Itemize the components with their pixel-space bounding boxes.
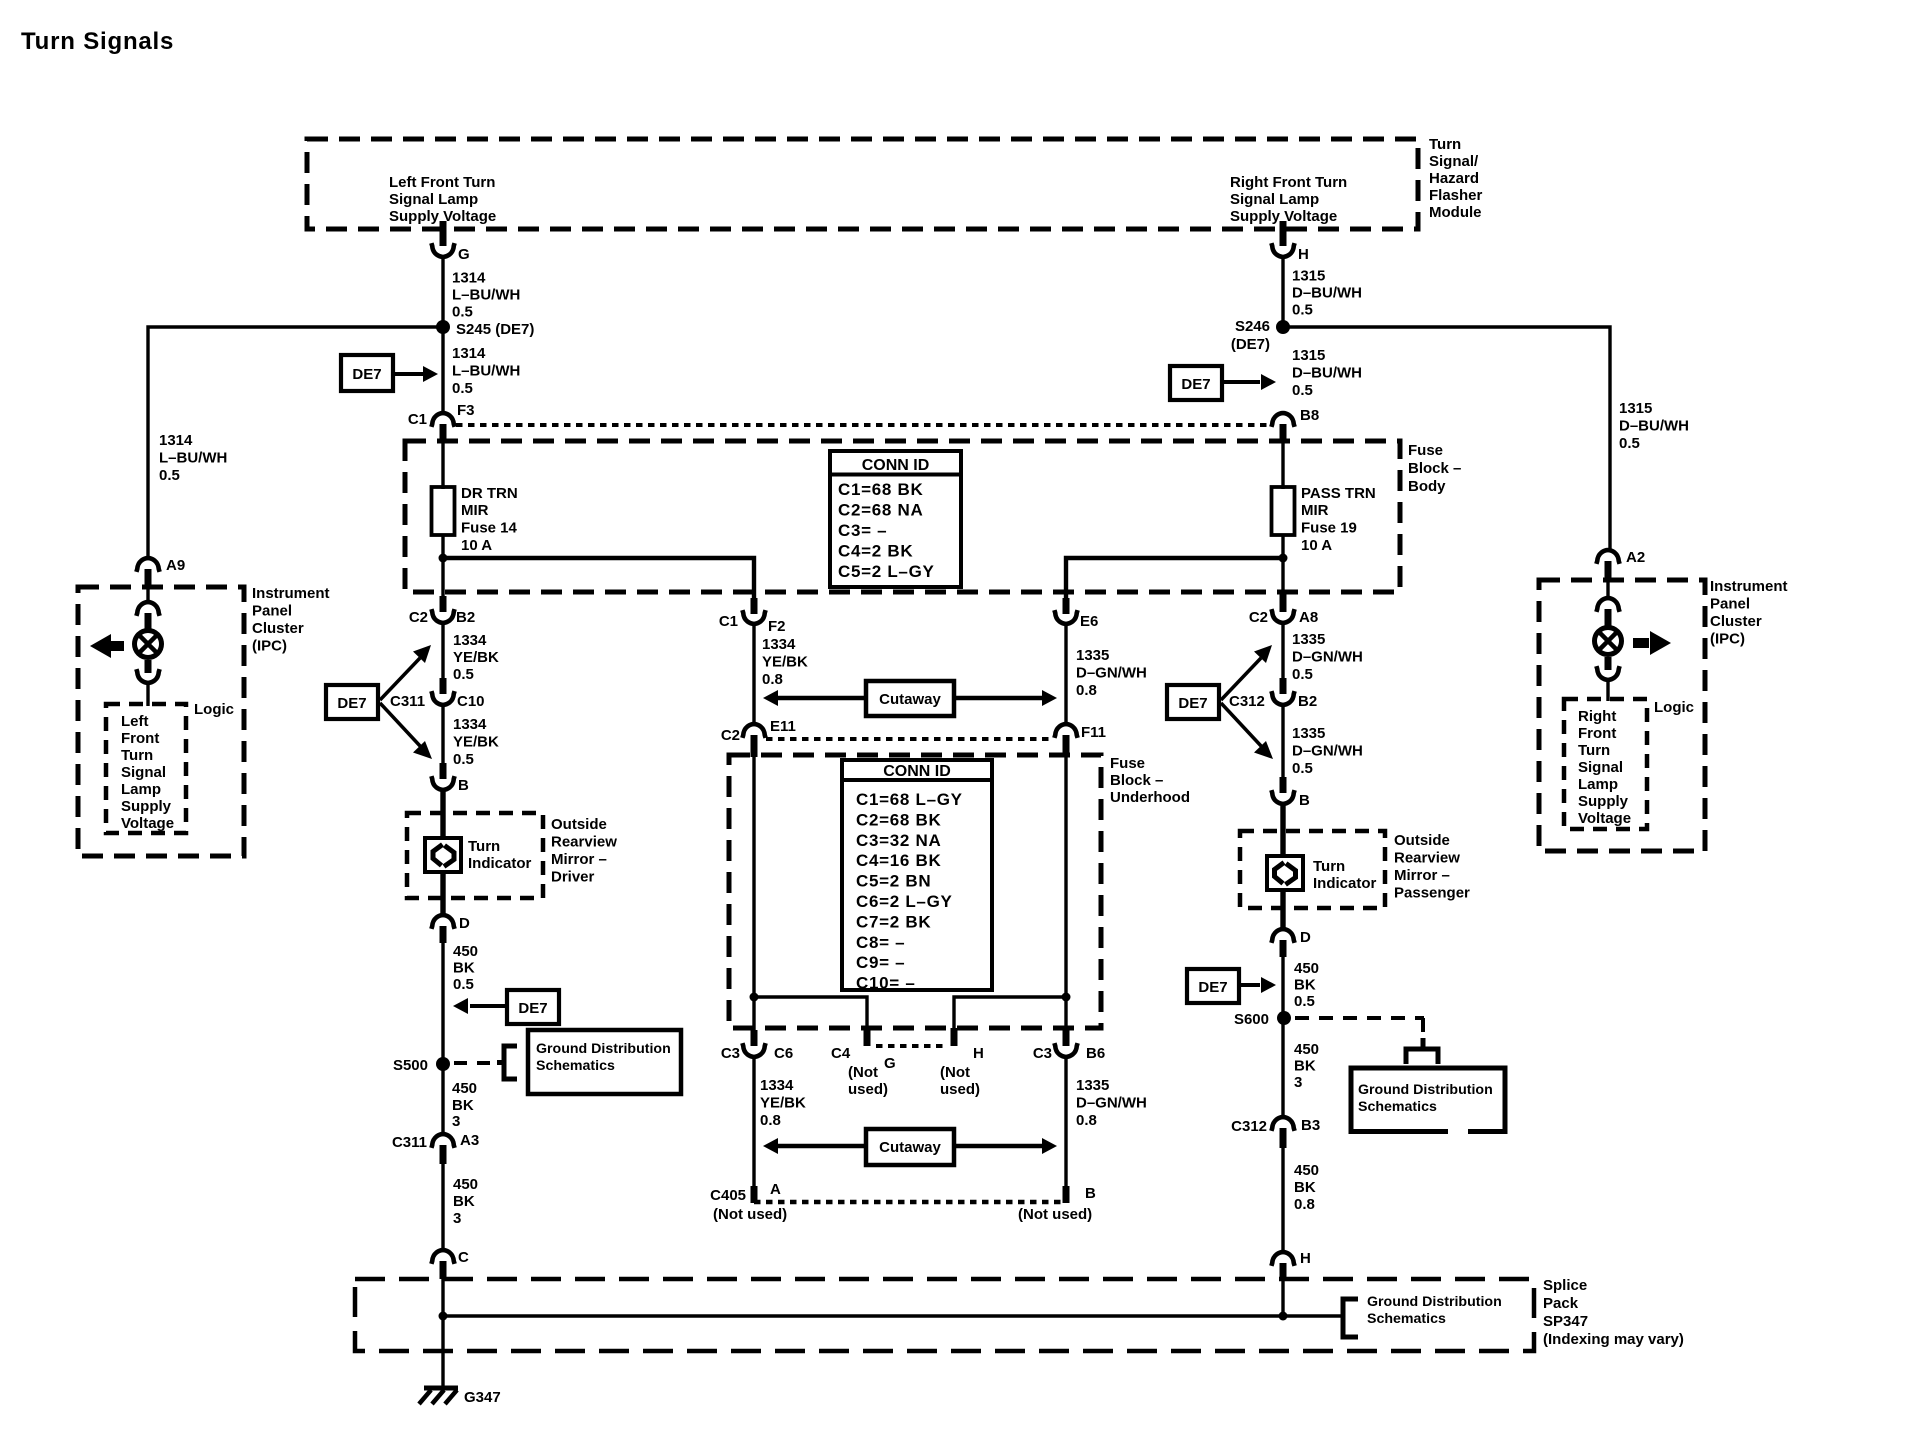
svg-text:1334: 1334 [762,636,796,653]
svg-text:10 A: 10 A [461,537,492,554]
turn indicator lamp (passenger) [1267,856,1303,890]
svg-text:0.8: 0.8 [1076,1112,1097,1129]
label: Fuse Block - Body [1408,442,1461,495]
connector C3/C6 [742,1043,765,1057]
wire into fuse F19 [1281,439,1284,489]
wire 450 S600 to C312/B3 [1281,1018,1284,1119]
svg-text:Ground Distribution: Ground Distribution [1367,1294,1502,1310]
connector C3/B6 [1054,1043,1077,1057]
bracket to ground distribution note [497,1046,517,1079]
svg-text:(Not used): (Not used) [1018,1206,1092,1223]
splice S500 [436,1057,450,1071]
svg-text:C311: C311 [392,1134,427,1151]
svg-text:H: H [1298,246,1309,263]
wire B to turn indicator [440,790,445,840]
wire 1334 C2/B2 to C311/C10 [441,623,444,680]
svg-text:DE7: DE7 [1178,695,1207,712]
svg-text:C1=68 BK: C1=68 BK [838,480,923,499]
svg-text:S600: S600 [1234,1011,1269,1028]
cutaway marker (upper) [763,681,1057,716]
dotted connector line E11-F11 [766,737,1054,741]
CONN ID table (underhood) [842,760,992,993]
note box: Ground Distribution Schematics (S500) [528,1030,681,1094]
svg-text:Instrument: Instrument [1710,578,1788,595]
svg-text:1335: 1335 [1292,725,1325,742]
svg-text:Driver: Driver [551,869,595,886]
wire label 450 BK 3 (right) [1294,1041,1319,1091]
svg-text:Turn: Turn [468,838,500,855]
svg-text:C1: C1 [719,613,738,630]
svg-text:Indicator: Indicator [1313,875,1377,892]
svg-text:Front: Front [1578,725,1616,742]
svg-text:(Not: (Not [848,1064,878,1081]
logic box (right IPC) [1564,699,1647,829]
svg-text:Cluster: Cluster [1710,613,1762,630]
arrow DE7 up to wire above C312 [1221,645,1272,700]
svg-text:C6: C6 [774,1045,793,1062]
svg-text:Splice: Splice [1543,1277,1587,1294]
svg-text:B: B [458,777,469,794]
svg-text:F11: F11 [1081,724,1106,741]
svg-text:Panel: Panel [252,603,292,620]
svg-text:Mirror –: Mirror – [1394,867,1450,884]
connector (IPC internal top, right) [1596,598,1619,612]
connector G [431,243,454,257]
svg-text:Pack: Pack [1543,1295,1579,1312]
turn indicator lamp (driver) [425,838,461,872]
svg-text:F3: F3 [457,402,475,419]
svg-text:450: 450 [1294,1162,1319,1179]
svg-text:Passenger: Passenger [1394,885,1470,902]
svg-text:B: B [1085,1185,1096,1202]
svg-text:1334: 1334 [453,716,487,733]
svg-text:YE/BK: YE/BK [453,649,499,666]
svg-text:Cutaway: Cutaway [879,691,941,708]
svg-text:A9: A9 [166,557,185,574]
svg-text:C10= –: C10= – [856,974,916,993]
svg-text:1334: 1334 [760,1077,794,1094]
wire branch to C4 stub [754,997,867,1032]
svg-text:PASS TRN: PASS TRN [1301,485,1376,502]
wire F11 down through underhood box [1064,753,1067,1032]
connector D (driver) [431,915,454,929]
svg-text:450: 450 [1294,960,1319,977]
svg-text:3: 3 [1294,1074,1302,1091]
svg-text:Panel: Panel [1710,596,1750,613]
svg-text:C312: C312 [1231,1118,1267,1135]
svg-text:450: 450 [453,943,478,960]
connector C (splice pack) [431,1250,454,1264]
svg-text:0.5: 0.5 [453,976,474,993]
pin stub C [440,1261,447,1279]
svg-text:D–GN/WH: D–GN/WH [1076,1095,1147,1112]
label: Right Front Turn Signal Lamp Supply Voltage [1578,708,1631,827]
arrow DE7 down to wire below C311 [380,703,432,759]
svg-text:Logic: Logic [1654,699,1694,716]
svg-text:0.5: 0.5 [1292,760,1313,777]
connector B (driver mirror) [431,776,454,790]
wire below fuse F14 [441,535,444,598]
svg-text:Lamp: Lamp [121,781,161,798]
wire label 1334 YE/BK 0.5 (below C311) [453,716,499,768]
flasher module U1 box [307,139,1418,229]
indicator lamp (left IPC) [135,631,162,658]
svg-text:BK: BK [452,1097,474,1114]
arrow DE7 down to wire below C312 [1221,703,1273,759]
fuse label DR TRN MIR Fuse 14 10 A [461,485,518,554]
wire label 450 BK 0.8 [1294,1162,1319,1213]
wire 450 D to S500 [441,941,444,1064]
arrow DE7 to wire (right lower) [1239,977,1276,993]
splice pack SP347 box [355,1279,1534,1351]
wire branch F14 to C1/F2 [443,558,754,602]
connector H [1271,243,1294,257]
svg-text:1315: 1315 [1292,268,1325,285]
instrument panel cluster box (right) [1539,580,1705,851]
svg-text:Hazard: Hazard [1429,170,1479,187]
pin stub C2/B2 (left) [440,596,447,612]
svg-text:0.5: 0.5 [1292,382,1313,399]
svg-text:C4=2 BK: C4=2 BK [838,542,913,561]
connector A2 [1596,550,1619,564]
svg-text:DE7: DE7 [1181,376,1210,393]
svg-text:D–BU/WH: D–BU/WH [1292,365,1362,382]
svg-text:Indicator: Indicator [468,855,532,872]
svg-text:1315: 1315 [1292,347,1325,364]
svg-text:Schematics: Schematics [1358,1099,1437,1115]
wire 1334 C10 to B [441,705,444,764]
svg-text:Turn: Turn [1578,742,1610,759]
svg-text:A: A [770,1181,781,1198]
svg-text:C3: C3 [1033,1045,1052,1062]
wire C6 to C405-A [752,1057,755,1190]
svg-text:0.5: 0.5 [1292,302,1313,319]
wire lamp to logic (left IPC) [146,683,149,706]
connector C312/B2 [1271,691,1294,705]
svg-text:Outside: Outside [551,816,607,833]
right turn arrow [1633,631,1671,655]
label: Right Front Turn Signal Lamp Supply Voltage [1230,174,1347,225]
wire label 1315 D-BU/WH 0.5 (right branch) [1619,400,1689,452]
svg-text:Voltage: Voltage [121,815,174,832]
svg-text:H: H [1300,1250,1311,1267]
wire label 1314 L-BU/WH 0.5 (left branch) [159,432,227,484]
junction H wire at bus [1279,1312,1288,1321]
wire branch to H stub [954,997,1066,1032]
CONN ID table (fuse block body) [830,451,961,587]
svg-text:1335: 1335 [1292,631,1325,648]
svg-text:1314: 1314 [452,270,486,287]
svg-text:Fuse: Fuse [1110,755,1145,772]
svg-text:D–BU/WH: D–BU/WH [1292,285,1362,302]
pin stub D [440,926,447,943]
pin stub A (C405) [751,1186,758,1203]
fuse F14 [432,487,455,535]
svg-text:C5=2 BN: C5=2 BN [856,872,931,891]
svg-text:CONN ID: CONN ID [883,763,951,780]
svg-text:B2: B2 [1298,693,1317,710]
svg-text:Voltage: Voltage [1578,810,1631,827]
label: Left Front Turn Signal Lamp Supply Voltage [121,713,174,832]
svg-text:D–GN/WH: D–GN/WH [1292,743,1363,760]
svg-text:S245 (DE7): S245 (DE7) [456,321,534,338]
connector C312/B3 [1271,1117,1294,1131]
pin stub C3/B6 [1063,1030,1070,1046]
svg-text:G347: G347 [464,1389,501,1406]
svg-text:(Indexing may vary): (Indexing may vary) [1543,1331,1684,1348]
connector C2/B2 (left) [431,609,454,623]
wire label 450 BK 3 (below C311) [453,1176,478,1227]
pin stub C312/B2 [1280,678,1287,694]
wire label 1334 YE/BK 0.5 [453,632,499,683]
pin stub E11 [751,735,758,757]
svg-text:Schematics: Schematics [536,1058,615,1074]
wire F2 to E11 [752,624,755,726]
pin stub G [440,221,447,246]
wire label 1314 L-BU/WH 0.5 (below S245) [452,345,520,397]
connector C2/A8 (right) [1271,609,1294,623]
connector F11 [1054,724,1077,738]
svg-text:D: D [1300,929,1311,946]
pin stub C2/A8 (right) [1280,594,1287,612]
pin stub F3 [440,424,447,441]
svg-text:C2: C2 [409,609,428,626]
pin stub H (splice pack) [1280,1263,1287,1281]
label: Outside Rearview Mirror - Driver [551,816,617,886]
svg-text:C2=68 BK: C2=68 BK [856,810,941,829]
wire A2 into IPC [1606,578,1609,596]
svg-text:0.5: 0.5 [1294,993,1315,1010]
svg-text:0.5: 0.5 [452,304,473,321]
pin stub C1/F2 [751,598,758,614]
pin stub H [1280,221,1287,246]
svg-text:Right Front Turn: Right Front Turn [1230,174,1347,191]
wire label 1335 D-GN/WH 0.5 (below C312) [1292,725,1363,777]
label: Instrument Panel Cluster (IPC) left [252,585,330,655]
pin stub C3/C6 [751,1030,758,1046]
indicator lamp (right IPC) [1595,628,1622,655]
label: Instrument Panel Cluster (IPC) right [1710,578,1788,648]
svg-text:1335: 1335 [1076,647,1109,664]
svg-text:DE7: DE7 [1198,979,1227,996]
svg-text:Turn Signals: Turn Signals [21,28,174,55]
wire 1314 from G to S245 [441,257,444,327]
wire E6 to F11 [1064,624,1067,726]
pin stub B (passenger mirror) [1280,777,1287,793]
svg-text:A3: A3 [460,1132,479,1149]
svg-text:Cutaway: Cutaway [879,1139,941,1156]
svg-text:Supply: Supply [1578,793,1629,810]
svg-text:450: 450 [452,1080,477,1097]
label: Left Front Turn Signal Lamp Supply Voltage [389,174,496,225]
wire turn indicator to D (passenger) [1280,890,1285,931]
svg-text:Outside: Outside [1394,832,1450,849]
pin stub C311/C10 [440,678,447,694]
left turn arrow [90,634,124,658]
label: Fuse Block - Underhood [1110,755,1190,806]
pin stub B (driver mirror) [440,763,447,779]
svg-text:S246: S246 [1235,318,1270,335]
svg-text:DE7: DE7 [337,695,366,712]
svg-text:DR TRN: DR TRN [461,485,518,502]
reference box DE7 (at C312) [1167,685,1219,719]
svg-text:1314: 1314 [452,345,486,362]
svg-text:D–GN/WH: D–GN/WH [1076,665,1147,682]
connector C1/F3 [431,413,454,427]
svg-text:DE7: DE7 [352,366,381,383]
wire 1335 A8 to C312/B2 [1281,623,1284,680]
wire 450 S500 to C311/A3 [441,1064,444,1136]
label: Outside Rearview Mirror - Passenger [1394,832,1470,902]
node label S246 (DE7) [1231,318,1270,353]
connector A9 [136,558,159,572]
wire branch from S245 to left IPC [148,327,443,559]
connector C311/C10 [431,691,454,705]
junction at right underhood branch [1062,993,1071,1002]
svg-text:C312: C312 [1229,693,1265,710]
connector C311/A3 [431,1134,454,1148]
svg-text:BK: BK [1294,1058,1316,1075]
svg-text:B6: B6 [1086,1045,1105,1062]
svg-text:C9= –: C9= – [856,953,905,972]
svg-text:C5=2 L–GY: C5=2 L–GY [838,562,935,581]
junction at left fuse branch [439,554,448,563]
label (Not used) under H [940,1064,980,1098]
dotted connector line C405 [754,1200,1066,1205]
wire label 450 BK 0.5 [453,943,478,993]
svg-text:0.5: 0.5 [452,380,473,397]
splice S246 [1276,320,1290,334]
wire C into splice pack [441,1277,444,1388]
bracket to ground distribution note (S600) [1406,1038,1438,1064]
mirror driver box [407,813,543,898]
pin stub below lamp (right IPC) [1605,657,1612,670]
reference box DE7 (left top) [341,355,393,391]
label: Splice Pack SP347 (Indexing may vary) [1543,1277,1684,1348]
pin stub A2 [1605,561,1612,580]
wire 450 A3 to C [441,1162,444,1252]
pin stub F11 [1063,735,1070,757]
svg-text:Right: Right [1578,708,1616,725]
wire A9 into IPC [146,585,149,600]
connector (IPC internal top, left) [136,602,159,616]
svg-text:Signal Lamp: Signal Lamp [1230,191,1319,208]
connector cup below lamp (left IPC) [136,669,159,683]
instrument panel cluster box (left) [78,587,244,856]
svg-text:Fuse: Fuse [1408,442,1443,459]
svg-text:C1=68 L–GY: C1=68 L–GY [856,790,963,809]
svg-text:YE/BK: YE/BK [760,1095,806,1112]
svg-text:G: G [884,1055,896,1072]
ground G347 [419,1388,458,1404]
wire 450 D to S600 [1281,955,1284,1018]
reference box DE7 (right top) [1170,366,1222,400]
svg-text:A8: A8 [1299,609,1318,626]
svg-text:Supply: Supply [121,798,172,815]
splice S245 [436,320,450,334]
bracket to ground distribution note (SP347) [1343,1299,1358,1337]
svg-text:Fuse 19: Fuse 19 [1301,520,1357,537]
svg-text:Turn: Turn [1429,136,1461,153]
arrow DE7 to wire (left lower, pointing left) [453,998,507,1014]
svg-text:BK: BK [1294,1179,1316,1196]
connector B8 [1271,413,1294,427]
reference box DE7 (right lower) [1187,969,1239,1003]
wire below fuse F19 [1281,535,1284,592]
svg-text:CONN ID: CONN ID [862,457,930,474]
connector C1/F2 [742,610,765,624]
note box: Ground Distribution Schematics (S600) [1351,1068,1505,1132]
svg-text:1334: 1334 [453,632,487,649]
svg-text:C311: C311 [390,693,425,710]
svg-text:Lamp: Lamp [1578,776,1618,793]
pin stub B3 [1280,1128,1287,1148]
svg-text:E11: E11 [770,718,796,735]
svg-text:Left Front Turn: Left Front Turn [389,174,495,191]
svg-text:L–BU/WH: L–BU/WH [452,363,520,380]
svg-text:used): used) [940,1081,980,1098]
svg-text:C3=32 NA: C3=32 NA [856,831,941,850]
dotted connector line G-H [876,1044,945,1048]
pin stub B8 [1280,424,1287,441]
wire 1335 B2 to B [1281,705,1284,778]
svg-text:0.5: 0.5 [453,751,474,768]
svg-text:C3= –: C3= – [838,521,887,540]
arrow DE7 to wire (right top) [1222,374,1276,390]
label (Not used) under C4 [848,1064,888,1098]
svg-text:SP347: SP347 [1543,1313,1588,1330]
svg-text:Front: Front [121,730,159,747]
svg-text:DE7: DE7 [518,1000,547,1017]
wire label 1335 D-GN/WH 0.5 [1292,631,1363,683]
svg-text:0.8: 0.8 [1294,1196,1315,1213]
wire 450 B3 to H [1281,1146,1284,1254]
pin stub D (passenger) [1280,940,1287,957]
wire branch from S246 to right IPC [1283,327,1610,551]
svg-text:C6=2 L–GY: C6=2 L–GY [856,892,953,911]
svg-text:0.5: 0.5 [453,666,474,683]
pin stub below lamp (left IPC) [145,660,152,673]
connector B (passenger mirror) [1271,790,1294,804]
svg-text:450: 450 [453,1176,478,1193]
svg-text:used): used) [848,1081,888,1098]
svg-text:Signal Lamp: Signal Lamp [389,191,478,208]
svg-text:Signal: Signal [121,764,166,781]
junction C wire at bus [439,1312,448,1321]
svg-text:0.8: 0.8 [760,1112,781,1129]
svg-text:C3: C3 [721,1045,740,1062]
wire 1315 from H to S246 [1281,257,1284,327]
wire B6 to C405-B [1064,1057,1067,1190]
svg-text:Rearview: Rearview [1394,850,1460,867]
svg-text:C7=2 BK: C7=2 BK [856,912,931,931]
svg-text:C4=16 BK: C4=16 BK [856,851,941,870]
svg-text:Schematics: Schematics [1367,1311,1446,1327]
svg-text:(IPC): (IPC) [252,638,287,655]
wire label 1334 YE/BK 0.8 (lower) [760,1077,806,1129]
fuse block body box [405,441,1400,592]
svg-text:(Not: (Not [940,1064,970,1081]
svg-text:C2: C2 [721,727,740,744]
svg-text:BK: BK [453,960,475,977]
svg-text:Ground Distribution: Ground Distribution [536,1041,671,1057]
svg-text:S500: S500 [393,1057,428,1074]
dotted connector line C1-B8 [456,423,1270,427]
reference box DE7 (at C311) [326,685,378,719]
svg-text:A2: A2 [1626,549,1645,566]
svg-text:L–BU/WH: L–BU/WH [159,450,227,467]
wire label 450 BK 3 [452,1080,477,1130]
